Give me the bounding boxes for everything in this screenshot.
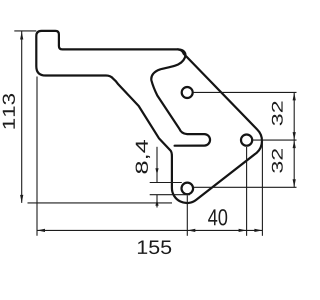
arrowhead dim 32 upper at hole line (points up)	[293, 92, 296, 100]
arrowhead dim 113 top (points up)	[20, 32, 23, 40]
dim 155: right extension line (from right vertex)	[261, 141, 263, 236]
dim 8,4: upper tangent extension line	[150, 182, 182, 184]
label 8,4	[136, 140, 150, 173]
dim 8,4: dimension line lower segment	[156, 195, 158, 208]
label 155	[138, 240, 171, 254]
arrowhead dim 155 right (points right)	[254, 229, 262, 232]
dim 155: left extension line (from lip)	[36, 77, 38, 236]
dim 113: bottom extension line (part bottom edge extended left)	[28, 202, 173, 204]
arrowhead dim 32 upper at middle line (points down)	[293, 132, 296, 140]
part outline: outer contour	[36, 31, 262, 203]
inner edge: tip cap, underside and bent channel	[151, 49, 210, 145]
dim 8,4: dimension line upper segment	[156, 147, 158, 183]
label 32 upper	[272, 102, 283, 126]
label 40	[208, 209, 227, 225]
dim 40: left extension line (from lower hole)	[186, 196, 188, 236]
dim 32: reference line from middle hole	[252, 139, 296, 141]
hole middle right	[241, 135, 252, 146]
arrowhead dim 32 lower at bottom line (points down)	[293, 179, 296, 187]
dim 32 lower: reference line from lower hole	[193, 186, 296, 188]
label 32 lower	[272, 149, 283, 173]
dim 32 chain: vertical dimension line	[293, 92, 295, 187]
label 113	[3, 94, 15, 129]
dim 155/40: shared horizontal dimension line	[37, 229, 262, 231]
dim 32 upper: reference line from upper hole	[193, 91, 297, 93]
dim 113: top extension line	[14, 30, 36, 32]
arrowhead dim 32 lower at middle line (points up)	[293, 140, 296, 148]
arrowhead dim 113 bottom (points down)	[20, 195, 23, 203]
dim 40: right extension line (from middle hole)	[246, 147, 248, 236]
hole upper	[182, 87, 193, 98]
arrowhead dim 40 left (points left)	[187, 229, 195, 232]
hole lower left	[182, 183, 194, 195]
arrowhead dim 8,4 lower (points up)	[155, 200, 158, 206]
arrowhead dim 155 left (points left)	[37, 229, 45, 232]
dim 8,4: lower tangent extension line	[150, 194, 190, 196]
dim 113: vertical dimension line	[21, 32, 23, 203]
arrowhead dim 8,4 upper (points down)	[155, 168, 158, 175]
arrowhead dim 40 right (points right)	[239, 229, 247, 232]
